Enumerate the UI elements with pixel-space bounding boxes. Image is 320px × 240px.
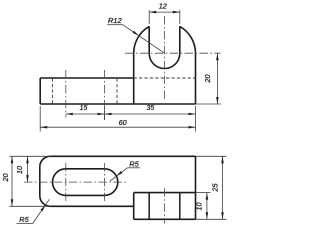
svg-text:20: 20 [203,75,212,84]
svg-text:10: 10 [194,203,203,211]
svg-text:10: 10 [15,166,24,174]
svg-text:R5: R5 [129,159,139,168]
svg-text:60: 60 [119,118,127,127]
svg-text:25: 25 [211,183,220,193]
svg-text:20: 20 [1,174,10,183]
svg-text:35: 35 [147,105,155,112]
svg-text:12: 12 [159,1,167,10]
svg-text:R12: R12 [108,16,123,25]
svg-text:R5: R5 [19,215,29,224]
svg-text:15: 15 [80,105,88,112]
